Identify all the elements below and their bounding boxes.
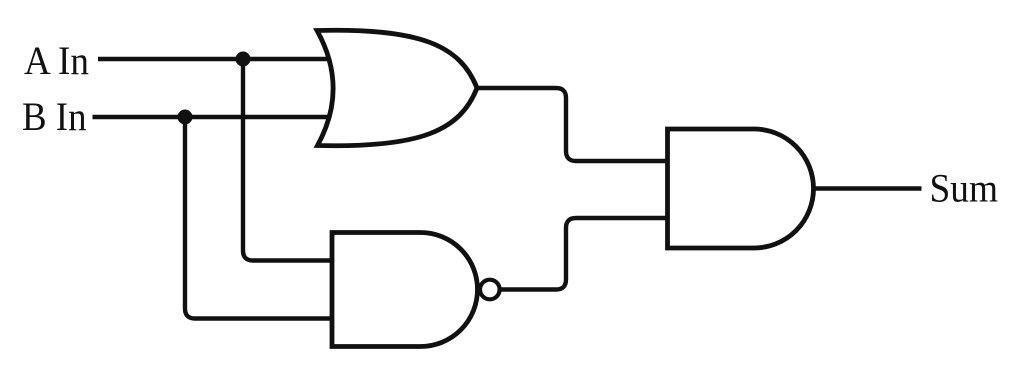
wire A input <box>98 57 340 61</box>
wire NAND output to AND bottom input <box>498 218 670 290</box>
wire B branch down to NAND bottom input <box>185 115 336 319</box>
nand-gate U2 body <box>332 233 478 347</box>
nand-gate U2 inversion bubble <box>480 280 500 300</box>
junction node on B wire <box>178 110 193 125</box>
svg-text:Sum: Sum <box>930 166 999 211</box>
or-gate U1 <box>317 30 477 145</box>
wire Sum output <box>812 186 922 190</box>
svg-text:A In: A In <box>24 38 89 83</box>
svg-text:B In: B In <box>22 94 87 139</box>
wire B input <box>93 115 341 119</box>
wire OR output to AND top input <box>474 88 670 161</box>
wire A branch down to NAND top input <box>243 57 336 261</box>
junction node on A wire <box>236 52 251 67</box>
and-gate U3 <box>668 129 814 248</box>
